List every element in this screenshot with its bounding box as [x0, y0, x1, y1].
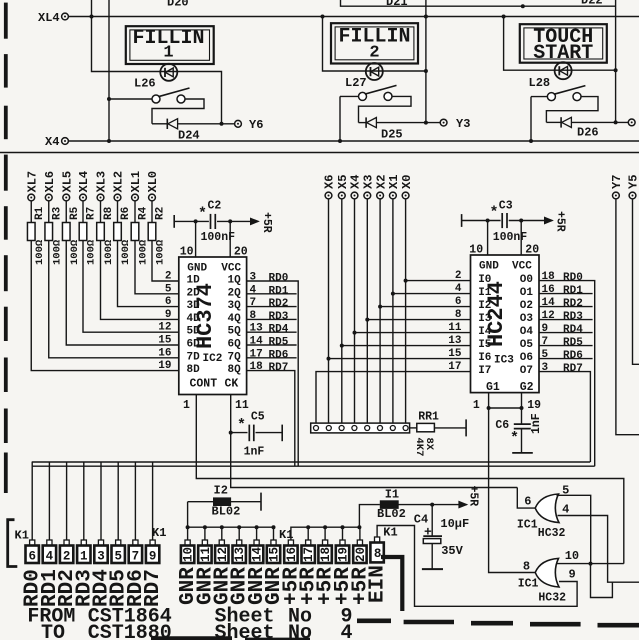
svg-text:+5R: +5R: [554, 211, 567, 232]
wire K1 pin 6 to RD bus: [31, 462, 33, 540]
wire XL2 to IC2 pin 6: [118, 241, 179, 307]
wire lamp L27 feed left: [323, 17, 426, 72]
svg-text:RD6: RD6: [269, 349, 289, 361]
wire IC3 O3 to RD3 bus: [539, 319, 593, 321]
connector K1 pin 3 RD4: [98, 540, 103, 546]
terminal Y-right (cut): [628, 119, 635, 126]
capacitor C4 10uF 35V: [430, 503, 434, 507]
svg-text:D20: D20: [167, 0, 189, 10]
svg-text:3: 3: [542, 362, 549, 374]
connector K1 pin 4 RD1: [47, 540, 52, 546]
svg-text:8: 8: [455, 309, 462, 321]
svg-text:1Q: 1Q: [228, 275, 242, 287]
svg-text:19: 19: [337, 547, 351, 562]
connector K1 pin 16 +5R: [288, 540, 293, 546]
svg-text:R4: R4: [138, 206, 150, 220]
svg-text:2: 2: [369, 44, 379, 63]
wire XL7 to IC2 pin 19: [31, 241, 179, 371]
svg-text:5: 5: [542, 349, 549, 361]
wire EIN to gate IC1 pin9: [377, 526, 577, 607]
svg-text:4: 4: [46, 550, 54, 564]
wire X6 to IC3 pin 15: [327, 357, 331, 361]
wire K1 pin 3 to RD bus: [100, 462, 102, 540]
svg-text:17: 17: [448, 361, 461, 373]
op-amp gate IC1 HC32 upper: [535, 494, 559, 523]
svg-text:IC1: IC1: [518, 578, 539, 591]
svg-text:11: 11: [448, 322, 462, 334]
svg-text:16: 16: [158, 347, 171, 359]
connector K1 pin 12 GNR: [220, 525, 224, 529]
wire gate1 input 4: [558, 516, 639, 583]
svg-text:XL4: XL4: [38, 11, 60, 25]
svg-text:R2: R2: [155, 207, 167, 220]
svg-text:100Ω: 100Ω: [103, 239, 115, 265]
svg-text:10: 10: [565, 549, 579, 563]
svg-text:RD2: RD2: [269, 298, 289, 310]
svg-text:D25: D25: [381, 128, 403, 142]
wire X3 to IC3 pin 8: [365, 318, 369, 322]
svg-text:1: 1: [183, 399, 190, 412]
wire IC2 pin10 stub: [194, 219, 198, 223]
connector K1 pin 20 +5R: [357, 525, 361, 529]
svg-text:+5R: +5R: [467, 486, 480, 507]
svg-text:R7: R7: [86, 207, 98, 220]
svg-text:XL6: XL6: [43, 171, 57, 193]
svg-text:R6: R6: [120, 207, 132, 220]
wire switch right loop: [152, 99, 204, 124]
svg-text:RD6: RD6: [563, 350, 583, 362]
wire XL4 row: [68, 16, 639, 18]
switch S-TOUCH: [531, 96, 548, 98]
svg-text:10: 10: [182, 547, 196, 562]
svg-text:14: 14: [250, 336, 264, 348]
wire Y3 column: [425, 0, 427, 123]
connector K1 pin 7 RD6: [133, 540, 138, 546]
svg-text:4: 4: [455, 283, 462, 295]
connector K1 pin 6 RD0: [30, 540, 35, 546]
wire Y7 to right edge: [616, 199, 639, 435]
svg-text:*: *: [490, 205, 499, 222]
wire switch column TOUCH: [530, 97, 532, 141]
wire IC3 O5 to RD5 bus: [539, 345, 593, 347]
wire IC2 3Q to RD2 bus: [247, 306, 297, 308]
connector K1 pin 10 GNR: [186, 525, 190, 529]
wire IC2 4Q to RD3 bus: [247, 318, 297, 320]
svg-text:No: No: [288, 622, 312, 640]
wire IC2 2Q to RD1 bus: [247, 293, 297, 295]
svg-text:XL5: XL5: [60, 171, 74, 193]
svg-text:4: 4: [562, 503, 569, 517]
svg-text:RD7: RD7: [142, 569, 165, 607]
wire IC2 5Q to RD4 bus: [247, 331, 297, 333]
resistor R4 100 ohm: [134, 201, 136, 223]
svg-text:7: 7: [250, 297, 257, 309]
wire IC3 O2 to RD2 bus: [539, 306, 593, 308]
connector K1 bracket: [8, 520, 18, 567]
wire EIN thick cable stub: [381, 557, 402, 611]
connector K1 pin 15 GNR: [272, 525, 276, 529]
svg-text:Y5: Y5: [627, 175, 639, 189]
svg-text:IC1: IC1: [517, 519, 538, 532]
wire K1 pin 7 to RD bus: [134, 462, 136, 540]
wire IC3 O6 to RD6 bus: [539, 358, 593, 360]
svg-text:1: 1: [473, 399, 480, 412]
lamp L27: [366, 63, 383, 80]
svg-text:O7: O7: [520, 365, 533, 377]
connector K1 pin 2 RD2: [64, 540, 69, 546]
connector K1 pin 19 +5R: [341, 525, 345, 529]
wire lamp L26 right: [220, 122, 224, 126]
svg-text:1: 1: [163, 44, 173, 63]
svg-text:RR1: RR1: [418, 411, 439, 424]
svg-text:O4: O4: [520, 326, 534, 338]
svg-text:RD0: RD0: [563, 272, 583, 284]
svg-text:RD0: RD0: [269, 273, 289, 285]
button box FILLIN 2: [331, 23, 418, 63]
svg-text:IC3: IC3: [494, 355, 514, 367]
diode D26: [546, 121, 560, 123]
page border bottom dashed: [357, 618, 391, 623]
svg-text:13: 13: [233, 547, 247, 562]
switch S-FILLIN2: [340, 95, 359, 97]
terminal Y3: [440, 119, 447, 126]
svg-text:O5: O5: [520, 339, 534, 351]
connector K1 pin 8 EIN: [375, 537, 380, 543]
svg-text:C2: C2: [208, 200, 222, 213]
svg-text:100nF: 100nF: [493, 231, 528, 244]
wire K1 pin 5 to RD bus: [117, 462, 119, 540]
svg-text:O3: O3: [520, 313, 534, 325]
svg-text:2Q: 2Q: [228, 287, 242, 299]
svg-text:XL3: XL3: [95, 171, 109, 193]
wire Y5 to right edge: [633, 199, 639, 364]
svg-text:XL1: XL1: [129, 171, 143, 193]
svg-text:G2: G2: [520, 381, 534, 394]
terminal Y6: [235, 120, 242, 127]
resistor R2 100 ohm: [151, 201, 153, 223]
svg-text:K1: K1: [152, 526, 166, 540]
wire IC3 O1 to RD1 bus: [539, 293, 593, 295]
svg-text:7Q: 7Q: [228, 351, 242, 363]
connector K1 pin 17 +5R: [306, 525, 310, 529]
power +5R arrow: [461, 504, 467, 506]
svg-text:R1: R1: [34, 206, 46, 220]
svg-text:100Ω: 100Ω: [86, 239, 98, 265]
svg-text:*: *: [510, 430, 519, 447]
svg-text:10µF: 10µF: [440, 517, 469, 531]
svg-text:TO: TO: [41, 622, 65, 640]
svg-text:BL02: BL02: [377, 507, 406, 521]
wire X5 to IC3 pin 13: [340, 344, 344, 348]
svg-text:GND: GND: [187, 263, 207, 275]
wire K1 pin 9 to RD bus: [152, 462, 154, 540]
resistor R3 100 ohm: [48, 201, 50, 223]
svg-text:CONT: CONT: [190, 378, 218, 391]
svg-text:11: 11: [199, 547, 213, 562]
svg-text:100Ω: 100Ω: [155, 239, 167, 265]
svg-text:G1: G1: [486, 381, 500, 394]
svg-text:XL2: XL2: [112, 171, 126, 193]
svg-text:8D: 8D: [187, 364, 201, 376]
svg-text:HC32: HC32: [538, 527, 566, 540]
svg-text:2: 2: [63, 550, 71, 564]
svg-text:13: 13: [250, 323, 264, 335]
wire XL0 to IC2 pin 2: [152, 241, 179, 282]
page border bottom-left dashed fragments: [151, 636, 232, 640]
svg-text:14: 14: [251, 547, 265, 563]
svg-text:HC244: HC244: [484, 281, 509, 347]
svg-text:EIN: EIN: [367, 565, 390, 603]
svg-text:O2: O2: [520, 300, 533, 312]
wire switch column FILLIN2: [339, 96, 341, 141]
svg-text:K1: K1: [383, 526, 397, 540]
svg-text:6: 6: [455, 296, 462, 308]
svg-text:L28: L28: [529, 76, 551, 90]
svg-text:RD4: RD4: [269, 324, 289, 336]
svg-text:C3: C3: [499, 200, 513, 213]
connector K1 pin 11 GNR: [203, 525, 207, 529]
svg-text:HC374: HC374: [193, 283, 218, 349]
svg-text:18: 18: [542, 271, 556, 283]
svg-text:Y7: Y7: [610, 175, 624, 189]
wire IC2 pin11 CK: [231, 395, 518, 488]
svg-text:6: 6: [28, 550, 36, 564]
svg-text:+5R: +5R: [260, 212, 273, 233]
wire X0 down to RR1 strip: [405, 199, 407, 426]
resistor R8 100 ohm: [100, 201, 102, 223]
svg-text:9: 9: [569, 568, 576, 582]
lamp L26: [160, 64, 177, 81]
connector strip RR1 network: [311, 423, 410, 433]
svg-text:K1: K1: [279, 528, 293, 542]
svg-text:RD7: RD7: [269, 362, 289, 374]
wire IC2 6Q to RD5 bus: [247, 344, 297, 346]
svg-text:5: 5: [165, 283, 172, 295]
wire IC3 O0 to RD0 bus: [539, 281, 595, 467]
capacitor C3 100nF: [461, 214, 463, 227]
svg-text:R5: R5: [69, 206, 81, 220]
capacitor C5 1nF: [231, 432, 248, 434]
wire gate1 output 6 to CK: [517, 488, 536, 509]
svg-text:8: 8: [523, 560, 530, 574]
wire X4 down to RR1 strip: [354, 199, 356, 426]
svg-text:RD1: RD1: [269, 285, 289, 297]
svg-text:1nF: 1nF: [530, 413, 543, 434]
svg-text:8Q: 8Q: [228, 364, 242, 376]
svg-text:19: 19: [158, 360, 171, 372]
svg-text:8: 8: [374, 547, 382, 561]
wire IC3 O7 to RD7 bus: [539, 372, 590, 462]
svg-text:100Ω: 100Ω: [34, 239, 46, 265]
svg-text:XL4: XL4: [77, 171, 91, 193]
diode D24: [152, 123, 167, 125]
svg-text:CK: CK: [225, 378, 239, 391]
connector K1 pin 9 RD7: [150, 540, 155, 546]
resistor RR1 8X 4K7: [410, 427, 417, 429]
svg-text:13: 13: [448, 335, 462, 347]
wire RD bus horizontal B: [32, 465, 595, 467]
wire K1 pin 2 to RD bus: [66, 462, 68, 540]
wire IC3 O4 to RD4 bus: [539, 332, 593, 334]
svg-text:1: 1: [80, 550, 88, 564]
svg-text:17: 17: [250, 348, 263, 360]
connector K1 pin 1 RD3: [81, 540, 86, 546]
wire IC2 pin20 stub: [228, 219, 232, 223]
wire lamp L26 feed left: [92, 0, 222, 124]
svg-text:O6: O6: [520, 352, 533, 364]
wire IC2 pin1 CONT to gate IC1 out: [196, 395, 624, 564]
svg-text:IC2: IC2: [203, 353, 223, 365]
svg-text:RD5: RD5: [269, 337, 289, 349]
svg-text:L26: L26: [134, 77, 156, 91]
button box FILLIN 1: [126, 26, 214, 64]
svg-text:VCC: VCC: [221, 263, 241, 275]
wire switch right loop FILLIN2: [359, 96, 412, 122]
svg-text:I2: I2: [214, 484, 228, 498]
connector K1 pin 14 GNR: [255, 525, 259, 529]
svg-text:XL0: XL0: [146, 171, 160, 193]
svg-text:7: 7: [542, 336, 549, 348]
wire switch right loop TOUCH: [546, 97, 598, 123]
svg-text:19: 19: [527, 399, 541, 412]
svg-text:2: 2: [455, 270, 462, 282]
wire K1 pin 4 to RD bus: [48, 462, 50, 540]
svg-text:R3: R3: [51, 206, 63, 220]
wire X5 down to RR1 strip: [341, 199, 343, 426]
svg-text:3Q: 3Q: [228, 300, 242, 312]
wire Y column TOUCH: [615, 0, 617, 122]
wire X0 to IC3 pin 2: [404, 279, 408, 283]
svg-text:15: 15: [268, 547, 282, 562]
resistor R5 100 ohm: [65, 201, 67, 223]
wire X2 to IC3 pin 6: [378, 305, 382, 309]
wire IC3 pin10 stub: [486, 219, 490, 223]
svg-text:35V: 35V: [441, 544, 463, 558]
wire X1 down to RR1 strip: [392, 199, 394, 426]
wire X2 down to RR1 strip: [379, 199, 381, 426]
svg-text:8: 8: [250, 310, 257, 322]
svg-text:12: 12: [542, 310, 555, 322]
capacitor C6 1nF: [521, 408, 523, 424]
wire G1 to gate IC1 pin8: [489, 408, 536, 573]
svg-text:VCC: VCC: [512, 261, 532, 273]
svg-text:X6: X6: [323, 175, 337, 189]
svg-text:RD4: RD4: [563, 324, 583, 336]
wire IC2 7Q to RD6 bus: [247, 357, 297, 359]
svg-text:3: 3: [97, 550, 105, 564]
svg-text:Y3: Y3: [456, 117, 470, 131]
svg-text:RD3: RD3: [269, 311, 289, 323]
capacitor C2 100nF: [173, 215, 175, 228]
svg-text:14: 14: [542, 297, 556, 309]
box D21 (cut off): [341, 0, 616, 6]
svg-text:X0: X0: [400, 175, 414, 189]
svg-text:R8: R8: [103, 206, 115, 220]
svg-text:7: 7: [132, 550, 140, 564]
svg-text:7D: 7D: [187, 351, 201, 363]
node junction on D22 box line: [521, 4, 525, 8]
svg-text:3: 3: [250, 272, 257, 284]
svg-text:9: 9: [165, 309, 172, 321]
wire K1 pin 1 to RD bus: [83, 462, 85, 540]
connector K1 pin 13 GNR: [237, 525, 241, 529]
wire X4 row: [68, 140, 639, 142]
svg-text:4: 4: [250, 284, 257, 296]
wire XL3 to IC2 pin 9: [101, 241, 179, 320]
svg-text:*: *: [237, 417, 246, 434]
svg-text:5: 5: [562, 484, 569, 498]
svg-text:I6: I6: [478, 352, 491, 364]
svg-text:15: 15: [158, 335, 172, 347]
svg-text:RD1: RD1: [563, 285, 583, 297]
svg-text:12: 12: [158, 322, 171, 334]
resistor R1 100 ohm: [30, 201, 32, 223]
svg-text:6: 6: [165, 296, 172, 308]
svg-text:16: 16: [542, 284, 555, 296]
svg-text:D21: D21: [386, 0, 408, 9]
wire IC2 1Q to RD0 bus: [247, 281, 299, 466]
svg-text:18: 18: [319, 547, 333, 562]
svg-text:5: 5: [114, 550, 122, 564]
svg-text:1nF: 1nF: [244, 446, 265, 459]
wire IC2 8Q to RD7 bus: [247, 371, 295, 467]
wire X6 down to RR1 strip: [328, 199, 330, 426]
svg-text:100Ω: 100Ω: [120, 239, 132, 265]
wire XL1 to IC2 pin 5: [135, 241, 179, 294]
wire +5R bus: [291, 527, 360, 540]
svg-text:+: +: [424, 525, 432, 540]
svg-text:6: 6: [524, 495, 531, 509]
svg-text:6Q: 6Q: [228, 339, 242, 351]
svg-text:RD3: RD3: [563, 311, 583, 323]
svg-text:X4: X4: [45, 135, 59, 149]
svg-text:K1: K1: [15, 529, 29, 543]
lamp L28: [555, 62, 572, 79]
svg-text:17: 17: [302, 547, 316, 562]
svg-text:100Ω: 100Ω: [138, 239, 150, 265]
svg-text:O1: O1: [520, 287, 534, 299]
svg-text:9: 9: [149, 550, 157, 564]
svg-text:2: 2: [165, 271, 172, 283]
wire X1 to IC3 pin 4: [391, 292, 395, 296]
wire switch column: [108, 0, 110, 141]
svg-text:HC32: HC32: [538, 592, 566, 605]
svg-text:BL02: BL02: [212, 505, 241, 519]
resistor R6 100 ohm: [117, 201, 119, 223]
svg-text:C4: C4: [414, 513, 428, 527]
page border left dashed: [4, 3, 8, 39]
op-amp gate IC1 HC32 lower: [535, 558, 559, 587]
svg-text:O0: O0: [520, 274, 533, 286]
svg-text:RD2: RD2: [563, 298, 583, 310]
svg-text:C5: C5: [251, 411, 265, 424]
svg-text:100Ω: 100Ω: [51, 239, 63, 265]
svg-text:RD5: RD5: [563, 337, 583, 349]
svg-text:15: 15: [448, 348, 462, 360]
op IC2 HC374 body: [179, 257, 247, 395]
connector K1 pin 18 +5R: [323, 525, 327, 529]
svg-text:D26: D26: [577, 126, 599, 140]
svg-text:12: 12: [216, 547, 230, 562]
wire X4 to IC3 pin 11: [353, 331, 357, 335]
wire lamp L28 feed left: [504, 17, 616, 71]
wire IC3 pin20 stub: [519, 219, 523, 223]
wire XL6 to IC2 pin 16: [49, 241, 179, 358]
svg-text:C6: C6: [495, 419, 509, 432]
svg-text:RD7: RD7: [563, 363, 583, 375]
svg-text:GND: GND: [479, 261, 499, 273]
wire RR1 strip to IC3 pin 17: [316, 372, 471, 426]
